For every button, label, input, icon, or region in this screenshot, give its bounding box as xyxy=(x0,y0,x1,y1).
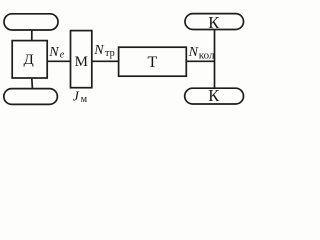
wire N_kol: transmission to axle xyxy=(186,60,214,62)
svg-text:К: К xyxy=(208,86,220,105)
svg-text:N: N xyxy=(48,45,59,60)
wire engine to bottom flywheel xyxy=(31,78,34,89)
svg-text:Д: Д xyxy=(23,52,33,68)
engine block Д xyxy=(12,41,47,78)
svg-text:кол: кол xyxy=(199,50,215,62)
svg-text:м: м xyxy=(81,94,88,105)
transmission block Т xyxy=(119,47,187,76)
wire engine to top flywheel xyxy=(31,30,33,41)
svg-text:М: М xyxy=(75,54,88,70)
svg-text:J: J xyxy=(73,90,80,105)
wheel top-right К xyxy=(185,14,244,30)
flywheel bottom-left stadium xyxy=(4,89,58,105)
svg-text:N: N xyxy=(93,43,104,58)
flywheel top-left stadium xyxy=(4,14,58,30)
wheel bottom-right К xyxy=(185,88,244,104)
wire N_tr: clutch to transmission xyxy=(92,60,119,62)
svg-text:e: e xyxy=(60,50,65,61)
svg-text:Т: Т xyxy=(148,54,158,71)
svg-text:К: К xyxy=(208,13,220,32)
clutch block М xyxy=(71,31,92,88)
axle wire between wheels xyxy=(214,30,216,89)
svg-text:N: N xyxy=(188,45,199,60)
svg-text:тр: тр xyxy=(105,48,115,59)
wire N_e: engine to clutch xyxy=(47,60,70,62)
